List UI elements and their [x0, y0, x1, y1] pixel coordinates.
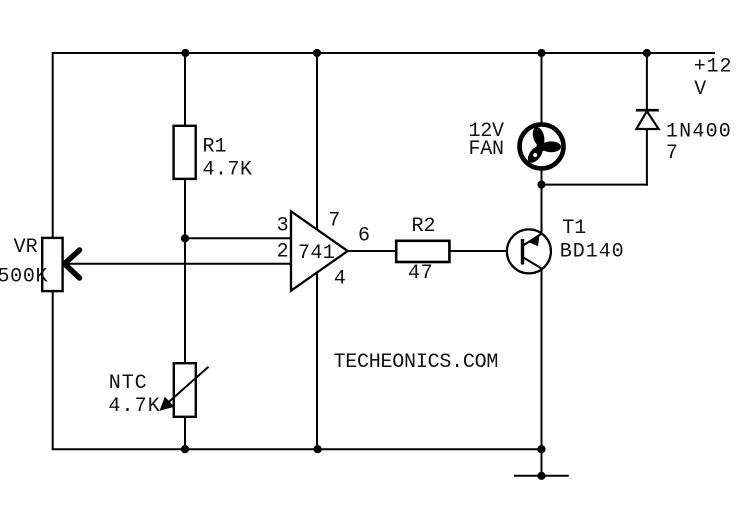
- svg-text:VR: VR: [14, 236, 38, 259]
- svg-text:741: 741: [298, 242, 335, 265]
- fan motor M1 12V fan symbol: [520, 124, 564, 168]
- resistor R1: [174, 126, 196, 179]
- junction bottom rail / NTC: [181, 445, 189, 453]
- svg-text:4.7K: 4.7K: [108, 395, 159, 418]
- wire top rail to diode cathode: [646, 53, 648, 110]
- potentiometer VR body: [42, 238, 62, 291]
- svg-text:FAN: FAN: [469, 138, 505, 161]
- wire left rail upper segment: [52, 52, 54, 239]
- wire top rail to R1: [184, 53, 186, 127]
- svg-text:+12: +12: [694, 56, 732, 79]
- svg-text:V: V: [694, 78, 706, 101]
- svg-text:T1: T1: [562, 217, 586, 240]
- wire diode anode down: [646, 129, 648, 186]
- transistor Q1 T1 BD140: [507, 229, 551, 273]
- junction top rail / R1: [181, 49, 189, 57]
- wire fan-diode link: [542, 184, 648, 186]
- wire top rail to fan: [541, 53, 543, 125]
- thermistor NTC diagonal stroke: [162, 367, 209, 408]
- ground bar: [514, 475, 569, 477]
- svg-text:7: 7: [328, 210, 340, 233]
- svg-text:4.7K: 4.7K: [203, 159, 253, 182]
- wire transistor collector to ground: [541, 268, 543, 475]
- ground junction dot: [537, 472, 545, 480]
- thermistor NTC body: [174, 363, 196, 417]
- wire NTC to bottom rail: [184, 416, 186, 449]
- junction top rail / fan: [537, 49, 545, 57]
- junction top rail / op-amp supply: [313, 49, 321, 57]
- svg-text:4: 4: [334, 267, 346, 290]
- svg-text:6: 6: [358, 225, 370, 248]
- wire fan to transistor emitter: [541, 169, 543, 234]
- svg-text:47: 47: [408, 262, 433, 285]
- resistor R2: [396, 241, 449, 262]
- potentiometer VR wiper arrow: [65, 250, 80, 278]
- wire R2 to transistor base: [449, 250, 521, 252]
- svg-text:2: 2: [277, 241, 289, 264]
- wire op-amp supply branch pins 7 and 4: [316, 53, 318, 449]
- svg-text:R2: R2: [412, 215, 436, 238]
- svg-text:TECHEONICS.COM: TECHEONICS.COM: [334, 351, 499, 374]
- wire left rail lower segment: [52, 290, 54, 449]
- svg-text:7: 7: [666, 142, 678, 165]
- junction bottom rail / collector: [537, 445, 545, 453]
- wire top +12V rail: [53, 52, 715, 54]
- wire pin 3 input: [185, 237, 291, 239]
- junction bottom rail / op-amp supply: [314, 445, 322, 453]
- junction fan / diode link: [537, 181, 545, 189]
- junction pin 3 / divider: [181, 234, 189, 242]
- svg-text:3: 3: [277, 215, 289, 238]
- svg-text:500K: 500K: [0, 266, 48, 289]
- wire pin 2 input from VR wiper: [66, 263, 291, 265]
- thermistor NTC arrowhead: [160, 397, 175, 411]
- svg-text:NTC: NTC: [109, 372, 147, 395]
- svg-text:R1: R1: [203, 136, 227, 159]
- diode D1 1N4007: [636, 110, 659, 129]
- wire bottom rail: [52, 448, 542, 450]
- wire op-amp output pin 6: [348, 250, 397, 252]
- svg-text:1N400: 1N400: [666, 120, 731, 143]
- wire R1 to NTC: [184, 178, 186, 364]
- junction top rail / diode: [643, 49, 651, 57]
- svg-text:BD140: BD140: [560, 241, 624, 264]
- op-amp U1 741 triangle: [291, 211, 348, 290]
